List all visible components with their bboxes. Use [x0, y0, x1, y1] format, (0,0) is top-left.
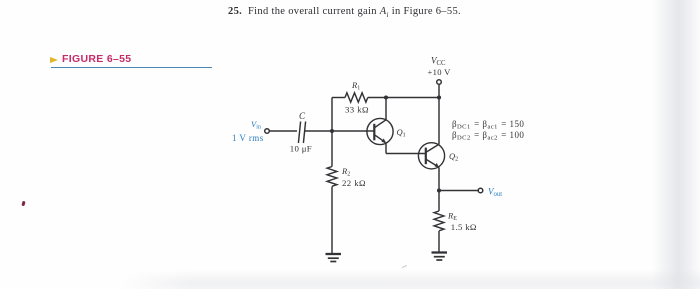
wire rail corner to R1: [332, 97, 345, 99]
wire R2 to ground: [331, 187, 333, 254]
wire Q1 emitter down: [385, 143, 387, 154]
figure callout triangle: [50, 57, 58, 63]
ground G2: [432, 253, 448, 261]
wire input to capacitor: [269, 130, 297, 132]
wire capacitor to base node: [305, 130, 367, 132]
svg-text:22 kΩ: 22 kΩ: [342, 178, 366, 188]
wire R1 to collector node: [368, 97, 386, 99]
output terminal Vout: [478, 188, 483, 193]
svg-text:Vout: Vout: [488, 186, 502, 198]
svg-text:R2: R2: [341, 166, 350, 178]
wire emitter node to RE: [438, 191, 440, 212]
svg-text:R1: R1: [351, 80, 360, 92]
page bottom edge shading: [118, 270, 700, 289]
wire node A up to rail corner: [331, 98, 333, 132]
page right edge shading: [652, 0, 700, 289]
capacitor C: [298, 122, 305, 144]
figure label FIGURE 6-55: [62, 53, 131, 65]
svg-text:βDC1 = βac1 = 150: βDC1 = βac1 = 150: [452, 119, 524, 130]
stray ink speck: [21, 201, 25, 207]
svg-text:+10 V: +10 V: [428, 67, 452, 77]
wire node A down to R2: [331, 131, 333, 167]
node A junction dot: [330, 129, 334, 133]
wire Vcc terminal to rail: [438, 84, 440, 97]
node output junction dot: [437, 188, 441, 192]
svg-text:RE: RE: [447, 211, 457, 223]
wire Q2 emitter down: [438, 167, 440, 190]
svg-text:βDC2 = βac2 = 100: βDC2 = βac2 = 100: [452, 130, 524, 142]
wire to output terminal: [439, 190, 478, 192]
transistor Q2: [418, 143, 444, 169]
svg-text:Q2: Q2: [449, 151, 458, 163]
svg-text:1 V rms: 1 V rms: [232, 133, 264, 143]
faint pencil dash: [402, 265, 407, 268]
Vcc terminal: [437, 80, 442, 85]
node Vcc junction dot: [437, 95, 441, 99]
svg-text:1.5 kΩ: 1.5 kΩ: [451, 222, 477, 232]
resistor RE zigzag: [434, 211, 444, 231]
svg-text:10 μF: 10 μF: [290, 143, 312, 153]
svg-text:VCC: VCC: [431, 56, 446, 68]
resistor R2 zigzag: [327, 167, 337, 187]
svg-text:C: C: [299, 111, 306, 121]
svg-text:Q1: Q1: [397, 127, 406, 139]
wire Q1 emitter to Q2 base: [386, 153, 426, 155]
blue rule under figure label: [51, 67, 212, 69]
ground G1: [326, 254, 342, 262]
svg-text:Vin: Vin: [251, 119, 261, 131]
input terminal Vin: [265, 129, 270, 134]
transistor Q1: [366, 118, 393, 144]
node Q1 collector junction dot: [384, 95, 388, 99]
wire Q1 collector up: [385, 98, 387, 120]
problem title text: [228, 6, 461, 19]
resistor R1 zigzag: [345, 93, 368, 102]
wire Q2 collector up: [438, 98, 440, 145]
top rail wire to Vcc: [386, 97, 439, 99]
wire RE to ground: [438, 231, 440, 252]
svg-text:33 kΩ: 33 kΩ: [345, 105, 369, 115]
